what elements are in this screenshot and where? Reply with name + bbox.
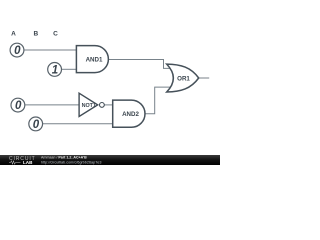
wire AND1 output to OR1 pin 1	[108, 60, 172, 69]
svg-text:A: A	[11, 31, 16, 38]
input source C value 1	[48, 63, 62, 77]
wire input A to NOT1	[25, 104, 79, 106]
svg-text:OR1: OR1	[177, 75, 190, 82]
and-gate AND1	[76, 46, 108, 73]
svg-text:1: 1	[52, 64, 58, 76]
svg-text:Ammaan / Part 1.2_AC+A'B: Ammaan / Part 1.2_AC+A'B	[41, 156, 87, 160]
input source A value 0	[10, 43, 24, 57]
wire input B to AND2 pin 2	[43, 123, 113, 125]
CircuitLab watermark footer bar	[0, 155, 220, 165]
svg-text:AND2: AND2	[122, 111, 139, 118]
svg-text:http://circuitlab.com/c/6grbb2: http://circuitlab.com/c/6grbb26ap7e3	[41, 160, 101, 164]
wire OR1 output	[199, 77, 210, 79]
svg-text:LAB: LAB	[23, 160, 33, 165]
and-gate AND2	[113, 100, 145, 127]
svg-text:0: 0	[14, 45, 21, 57]
svg-text:AND1: AND1	[86, 57, 103, 64]
svg-text:C: C	[53, 31, 58, 38]
wire input A to AND1 pin 1	[24, 49, 76, 51]
input source B value 0	[29, 117, 43, 131]
input source A value 0 (lower)	[11, 98, 25, 112]
svg-text:0: 0	[15, 100, 22, 112]
svg-text:0: 0	[33, 119, 40, 131]
not-gate NOT1	[79, 93, 104, 116]
svg-text:NOT1: NOT1	[82, 103, 96, 109]
wire input C to AND1 pin 2	[62, 68, 77, 70]
wire AND2 output to OR1 pin 2	[145, 87, 173, 114]
wire NOT1 output to AND2 pin 1	[104, 104, 112, 106]
or-gate OR1	[167, 64, 199, 92]
svg-text:B: B	[33, 31, 38, 38]
